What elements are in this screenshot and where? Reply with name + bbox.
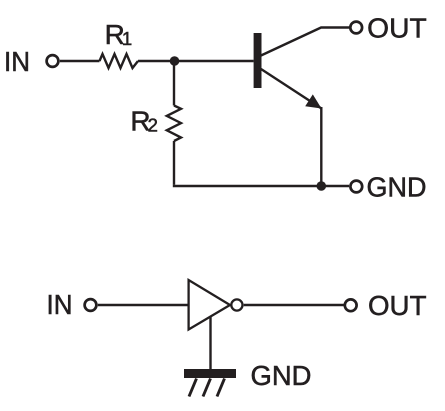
- junction dot on bottom rail: [317, 181, 327, 191]
- wire inverter to ground: [209, 317, 211, 371]
- resistor R1: [100, 54, 139, 68]
- transistor Q1 emitter arrowhead: [305, 94, 321, 108]
- svg-text:GND: GND: [251, 360, 312, 391]
- terminal GND (top circuit): [350, 181, 362, 193]
- ground symbol hash stroke 2: [203, 379, 211, 397]
- terminal OUT (bottom circuit): [345, 299, 357, 311]
- wire inverter to OUT: [244, 304, 345, 306]
- svg-text:GND: GND: [367, 172, 427, 203]
- node junction dot at R1/R2/base: [170, 56, 180, 66]
- terminal IN (top circuit): [47, 55, 59, 67]
- wire IN to R1: [60, 60, 100, 62]
- terminal OUT (top circuit): [350, 22, 362, 34]
- ground symbol hash stroke 3: [217, 379, 225, 397]
- wire R1 to base: [138, 60, 254, 62]
- svg-text:R2: R2: [130, 105, 158, 136]
- ground symbol hash stroke 1: [189, 379, 197, 397]
- svg-text:IN: IN: [47, 289, 73, 320]
- svg-text:OUT: OUT: [367, 13, 427, 44]
- wire IN to inverter: [98, 304, 189, 306]
- inverter U1 triangle: [189, 280, 230, 330]
- ground symbol bar: [184, 369, 236, 378]
- wire node down to R2: [173, 61, 175, 106]
- inverter U1 output bubble: [231, 299, 242, 310]
- transistor Q1 collector line: [261, 28, 350, 56]
- transistor Q1 base bar: [254, 33, 262, 88]
- svg-text:IN: IN: [4, 46, 30, 77]
- svg-text:OUT: OUT: [368, 290, 427, 321]
- wire bottom rail: [173, 185, 349, 187]
- svg-text:R1: R1: [105, 19, 133, 50]
- terminal IN (bottom circuit): [85, 299, 97, 311]
- transistor Q1 emitter line: [261, 69, 322, 109]
- wire emitter down to bottom rail: [320, 107, 322, 186]
- wire R2 to bottom rail: [173, 141, 175, 185]
- resistor R2: [167, 106, 181, 142]
